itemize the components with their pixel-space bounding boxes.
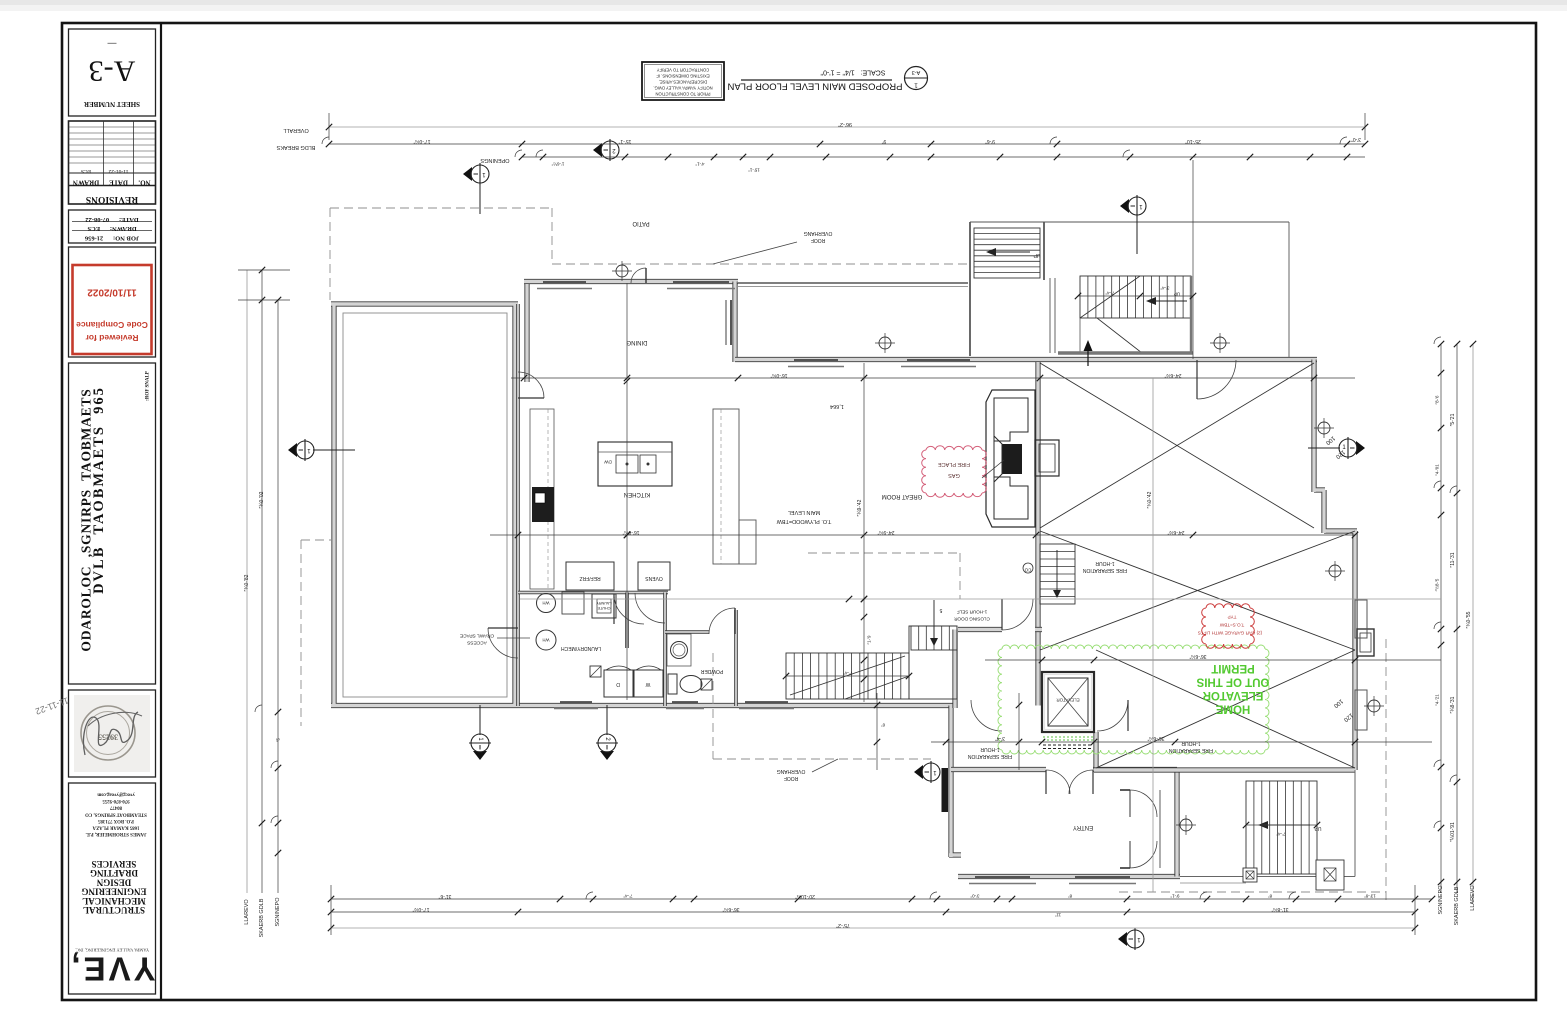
washer dryer bbox=[604, 666, 663, 697]
dim inner row 660 bbox=[985, 653, 1441, 663]
grid bubble dining bbox=[612, 261, 632, 281]
svg-text:ECS: ECS bbox=[81, 168, 91, 174]
svg-text:A-3: A-3 bbox=[912, 69, 921, 75]
svg-text::ROF SNALP: :ROF SNALP bbox=[146, 371, 151, 401]
kitchen island bbox=[598, 442, 672, 486]
svg-text:PROPOSED MAIN LEVEL FLOOR PLAN: PROPOSED MAIN LEVEL FLOOR PLAN bbox=[727, 81, 902, 92]
svg-text:″¼9-'42: ″¼9-'42 bbox=[857, 499, 863, 516]
svg-text:11/10/2022: 11/10/2022 bbox=[87, 287, 137, 298]
svg-text:8": 8" bbox=[1068, 894, 1073, 899]
svg-text:DINING: DINING bbox=[626, 339, 647, 345]
dim inner row 535 bbox=[490, 529, 1358, 538]
svg-text:1-HOUR SELF: 1-HOUR SELF bbox=[957, 610, 988, 615]
room labels bbox=[460, 220, 1213, 830]
upper floor outline dashed bbox=[808, 553, 960, 599]
window south 2 bbox=[666, 702, 704, 709]
svg-text:DW: DW bbox=[604, 460, 612, 465]
svg-text:6": 6" bbox=[881, 723, 886, 728]
svg-text:W: W bbox=[645, 681, 650, 687]
svg-text:DISCREPANCIES ARISE,: DISCREPANCIES ARISE, bbox=[659, 80, 708, 85]
dim inner row 378 bbox=[511, 372, 1355, 381]
wall powder west bbox=[663, 593, 667, 707]
svg-text:DRAWN: DRAWN bbox=[73, 179, 99, 187]
svg-text:7'-4": 7'-4" bbox=[1105, 291, 1114, 296]
wall dining west upper bbox=[524, 284, 529, 382]
svg-text:SGNINEPO: SGNINEPO bbox=[275, 897, 281, 927]
grid bubble garage e1 bbox=[1314, 418, 1334, 438]
svg-text:1-HOUR: 1-HOUR bbox=[1095, 560, 1115, 566]
svg-text:9'-1": 9'-1" bbox=[1170, 894, 1179, 899]
svg-text:SKAERB GDLB: SKAERB GDLB bbox=[259, 898, 265, 937]
stair top side walls bbox=[970, 222, 1055, 356]
svg-text:36'-6¼": 36'-6¼" bbox=[1147, 735, 1164, 741]
svg-text:17'-0¼": 17'-0¼" bbox=[413, 138, 430, 144]
elevator permit green text bbox=[1196, 662, 1269, 715]
svg-text:8": 8" bbox=[1268, 894, 1273, 899]
garage cross brace upper bbox=[1040, 363, 1314, 528]
closet walls bbox=[1120, 790, 1160, 868]
svg-text:T.O.S=TBW: T.O.S=TBW bbox=[1219, 623, 1244, 628]
wall laundry/powder divider bbox=[625, 593, 629, 649]
svg-text:LAUNRY: LAUNRY bbox=[596, 601, 612, 605]
wall garage west / great room east bbox=[1035, 362, 1040, 706]
stair fire separation bbox=[1040, 544, 1075, 604]
wall entry east bbox=[1174, 770, 1179, 877]
powder sink bbox=[667, 634, 691, 666]
wall left large room bbox=[331, 304, 518, 706]
svg-text:OVERHANG: OVERHANG bbox=[777, 768, 806, 774]
section marker top left bbox=[463, 163, 489, 214]
dim inner row 599 bbox=[520, 596, 1441, 602]
revisions table bbox=[69, 121, 156, 204]
svg-text:5: 5 bbox=[939, 607, 942, 613]
elevator door green dotted bbox=[1043, 737, 1093, 740]
dim stair s2 bbox=[1075, 286, 1196, 300]
svg-text:JAMES STROHMEIER, P.E.: JAMES STROHMEIER, P.E. bbox=[86, 831, 147, 836]
svg-text:OPENINGS: OPENINGS bbox=[480, 157, 509, 163]
svg-text:T.O. PLYWOOD=TBW: T.O. PLYWOOD=TBW bbox=[776, 518, 832, 524]
svg-text:(2) CAR GARAGE WITH LIFTS: (2) CAR GARAGE WITH LIFTS bbox=[1198, 631, 1262, 636]
svg-text:BLDG BREAKS: BLDG BREAKS bbox=[276, 144, 315, 150]
svg-text:″¼01-'91: ″¼01-'91 bbox=[1450, 822, 1456, 842]
svg-text:KITCHEN: KITCHEN bbox=[624, 491, 650, 497]
svg-text:24'-6½": 24'-6½" bbox=[1164, 372, 1181, 379]
grid bubble entry bbox=[1176, 815, 1196, 835]
door elevator hall right bbox=[1097, 700, 1128, 731]
section marker right garage bbox=[1308, 437, 1365, 459]
svg-text:STRUCTURAL: STRUCTURAL bbox=[83, 905, 145, 915]
cabinet below wh bbox=[562, 592, 584, 614]
svg-text:MECHANICAL: MECHANICAL bbox=[82, 896, 146, 906]
wall entry south bbox=[958, 874, 1180, 879]
svg-text:FIRE SEPARATION: FIRE SEPARATION bbox=[1082, 567, 1127, 573]
svg-text:″1-'9: ″1-'9 bbox=[867, 635, 872, 644]
stair exterior top bbox=[974, 228, 1040, 278]
wall hall east bbox=[1093, 732, 1098, 770]
svg-text:CRAWL SPACE: CRAWL SPACE bbox=[460, 633, 494, 639]
wall powder north bbox=[665, 630, 709, 634]
door garage north bbox=[1197, 360, 1236, 399]
ovens bbox=[638, 562, 670, 590]
newel post large bbox=[1316, 860, 1344, 890]
svg-text:REF/FRZ: REF/FRZ bbox=[579, 575, 600, 581]
svg-text:OVENS: OVENS bbox=[645, 575, 663, 581]
window dining 1 bbox=[537, 282, 592, 289]
wall hall west bbox=[952, 630, 957, 709]
dim stair s4 bbox=[783, 671, 912, 680]
window entry south 2 bbox=[1069, 877, 1136, 884]
svg-text:36'-6¼": 36'-6¼" bbox=[722, 906, 739, 912]
green permit cloud bbox=[998, 645, 1269, 754]
svg-text:yvecg@yveag.com: yvecg@yveag.com bbox=[97, 792, 134, 797]
window south 1 bbox=[554, 702, 598, 709]
svg-text:75'-2": 75'-2" bbox=[836, 922, 850, 928]
stair upper small flight bbox=[911, 626, 957, 650]
job info panel bbox=[69, 210, 156, 243]
section marker entry bbox=[914, 761, 940, 783]
svg-text:15'-1": 15'-1" bbox=[748, 168, 760, 173]
address panel bbox=[69, 363, 156, 684]
svg-text:″¾0-'82: ″¾0-'82 bbox=[244, 574, 250, 591]
wall great room + garage north bbox=[735, 357, 1317, 362]
svg-text:SCALE: 1/4" = 1'-0": SCALE: 1/4" = 1'-0" bbox=[820, 69, 885, 76]
stamp panel with red review box bbox=[69, 247, 156, 357]
svg-text:OVERHANG: OVERHANG bbox=[804, 230, 833, 236]
laundry chute bbox=[592, 594, 616, 618]
stair small flight arrow bbox=[930, 600, 942, 646]
wall kitchen west interior bbox=[516, 304, 520, 706]
svg-text:TYP: TYP bbox=[1228, 615, 1237, 620]
svg-text:MAIN LEVEL: MAIN LEVEL bbox=[788, 509, 820, 515]
drawing title bbox=[727, 67, 927, 92]
dim right verticals bbox=[1434, 341, 1477, 926]
garage cross brace lower bbox=[1096, 650, 1355, 768]
svg-text:1685 KAMAR PLAZA: 1685 KAMAR PLAZA bbox=[92, 825, 139, 830]
garage cloud text bbox=[1198, 615, 1262, 636]
window great room 1 bbox=[788, 360, 844, 367]
title block divider bbox=[160, 23, 162, 1000]
grid bubble porch e bbox=[1364, 696, 1384, 716]
dim vertical x627 bbox=[624, 283, 630, 700]
svg-text:ELEVATOR: ELEVATOR bbox=[1056, 698, 1080, 703]
svg-text:9'-6": 9'-6" bbox=[985, 138, 995, 144]
svg-text:HOME: HOME bbox=[1215, 703, 1250, 715]
svg-text:9": 9" bbox=[882, 138, 887, 144]
door left room lower bbox=[488, 628, 518, 658]
svg-text:11-01-22: 11-01-22 bbox=[108, 168, 128, 174]
dim left verticals bbox=[238, 267, 290, 938]
svg-text:1'-6½": 1'-6½" bbox=[551, 162, 564, 168]
svg-text:SERVICES: SERVICES bbox=[92, 859, 137, 869]
svg-text:″5: ″5 bbox=[276, 737, 281, 742]
svg-text:11": 11" bbox=[1054, 913, 1061, 918]
svg-text:JOB NO: 21-656: JOB NO: 21-656 bbox=[84, 235, 139, 242]
svg-text:ELEVATOR: ELEVATOR bbox=[1202, 689, 1263, 701]
shear wall squares bbox=[590, 666, 712, 690]
svg-text:″4-'21: ″4-'21 bbox=[1435, 694, 1440, 706]
svg-text:D: D bbox=[616, 681, 620, 687]
fireplace cloud text bbox=[938, 460, 1004, 478]
svg-text:LLAREVO: LLAREVO bbox=[1470, 885, 1476, 911]
wall powder east bbox=[734, 610, 738, 706]
svg-text:15'-1": 15'-1" bbox=[618, 138, 631, 144]
svg-text:UP: UP bbox=[1314, 825, 1322, 831]
grid bubble garage e2 bbox=[1325, 561, 1345, 581]
section marker bottom mid bbox=[596, 705, 618, 760]
dim top overall bbox=[283, 113, 1368, 140]
wall entry west bbox=[949, 706, 961, 858]
door closet lower bbox=[1130, 841, 1157, 868]
stair main interior bbox=[786, 653, 909, 699]
svg-text:970-870-9255: 970-870-9255 bbox=[102, 798, 130, 803]
porch slab edge lines bbox=[1180, 770, 1355, 883]
kitchen west counter bbox=[530, 409, 554, 589]
svg-text:SGNINEPO: SGNINEPO bbox=[1438, 885, 1444, 915]
window entry south 1 bbox=[969, 877, 1036, 884]
deck edge right bbox=[970, 222, 1289, 357]
wall hall north bbox=[958, 627, 1042, 632]
svg-text:25'-10": 25'-10" bbox=[1185, 138, 1201, 144]
svg-text:GREAT ROOM: GREAT ROOM bbox=[882, 493, 922, 499]
fireplace structure bbox=[986, 390, 1059, 527]
svg-text:CONTRACTOR TO VERIFY: CONTRACTOR TO VERIFY bbox=[657, 68, 710, 73]
stair top arrow bbox=[986, 248, 1040, 258]
section marker bottom left bbox=[469, 705, 491, 760]
dim inner row 742 bbox=[931, 735, 1432, 745]
svg-text:3'-0": 3'-0" bbox=[1351, 136, 1361, 142]
svg-text:″¼8-'31: ″¼8-'31 bbox=[1450, 696, 1456, 713]
revision cloud garage lifts bbox=[1202, 604, 1255, 649]
door hall top bbox=[635, 593, 665, 623]
svg-text:PERMIT: PERMIT bbox=[1211, 662, 1254, 674]
svg-text:17'-0½": 17'-0½" bbox=[412, 906, 429, 913]
svg-text:20'-10¼": 20'-10¼" bbox=[795, 893, 815, 899]
svg-text:24'-6½": 24'-6½" bbox=[1167, 529, 1184, 536]
stair entry porch bbox=[1246, 781, 1317, 874]
svg-text:36'-6¼": 36'-6¼" bbox=[1189, 653, 1206, 659]
left room inner slab line bbox=[343, 313, 507, 697]
svg-text:96'-2": 96'-2" bbox=[838, 121, 852, 127]
svg-text:UP: UP bbox=[1033, 252, 1041, 258]
revision cloud fireplace bbox=[922, 446, 987, 498]
svg-text:PRIOR TO CONSTRUCTION: PRIOR TO CONSTRUCTION bbox=[656, 92, 711, 97]
dim stair s5 bbox=[1243, 822, 1320, 837]
firm info + services + YVE logo panel bbox=[68, 783, 155, 994]
wall dining north bbox=[524, 279, 738, 284]
svg-text:1,664: 1,664 bbox=[830, 403, 844, 409]
door elevator hall left bbox=[971, 700, 1002, 731]
svg-text:DATE: 07-08-22: DATE: 07-08-22 bbox=[85, 216, 138, 223]
svg-text:3'-4": 3'-4" bbox=[995, 735, 1005, 741]
svg-text:POWDER: POWDER bbox=[700, 668, 723, 674]
stair landing bbox=[909, 626, 957, 699]
svg-text:SHEET NUMBER: SHEET NUMBER bbox=[83, 100, 140, 108]
svg-text:3'-0": 3'-0" bbox=[970, 894, 979, 899]
svg-text:CHUTE: CHUTE bbox=[597, 606, 611, 610]
svg-text:80477: 80477 bbox=[109, 805, 122, 810]
wall south main bbox=[518, 703, 953, 708]
svg-text:16'-0¾": 16'-0¾" bbox=[770, 372, 787, 378]
svg-text:DRAWN: ECS: DRAWN: ECS bbox=[87, 225, 137, 232]
window dining 2 bbox=[667, 282, 735, 289]
kitchen tall cabinets east bbox=[713, 409, 756, 564]
svg-text:WH: WH bbox=[543, 638, 550, 643]
window tags right wall bbox=[1324, 434, 1354, 722]
grid bubble garage nw bbox=[1210, 333, 1230, 353]
svg-text:1-HOUR: 1-HOUR bbox=[1181, 740, 1201, 746]
window south 3 bbox=[739, 702, 794, 709]
svg-text:″¾0-'42: ″¾0-'42 bbox=[1147, 491, 1153, 508]
door dining patio bbox=[631, 268, 646, 283]
svg-text:″4-'01: ″4-'01 bbox=[1435, 464, 1440, 476]
elevator shaft bbox=[1042, 672, 1094, 749]
svg-text:PATIO: PATIO bbox=[632, 220, 649, 226]
svg-text:ENGINEERING: ENGINEERING bbox=[81, 887, 146, 897]
garage cross brace middle bbox=[1040, 531, 1355, 650]
svg-text:GAS: GAS bbox=[948, 472, 960, 478]
svg-text:31'-8¼": 31'-8¼" bbox=[1271, 906, 1288, 912]
svg-text:″¾0-'55: ″¾0-'55 bbox=[1466, 611, 1472, 628]
svg-text:1: 1 bbox=[914, 82, 918, 89]
svg-text:OVERALL: OVERALL bbox=[283, 127, 308, 133]
dim top bldg breaks bbox=[276, 136, 1368, 150]
svg-text:ENTRY: ENTRY bbox=[1073, 824, 1093, 830]
stair fire separation arrow bbox=[1053, 550, 1061, 598]
window dining east vertical bbox=[726, 300, 731, 345]
svg-text:ODAROLOC ,SGNIRPS TAOBMAETS: ODAROLOC ,SGNIRPS TAOBMAETS bbox=[79, 388, 94, 651]
door hall 1hr self closing bbox=[1002, 599, 1033, 630]
water heaters bbox=[536, 594, 556, 651]
svg-text:DATE: DATE bbox=[109, 179, 128, 187]
svg-text:YVE,: YVE, bbox=[68, 951, 155, 988]
svg-text:16'-0¼": 16'-0¼" bbox=[622, 529, 639, 535]
grid bubble great room bbox=[875, 333, 895, 353]
powder toilet bbox=[668, 674, 702, 694]
svg-text:″½8-'5: ″½8-'5 bbox=[1434, 578, 1440, 591]
newel post small bbox=[1243, 868, 1257, 882]
svg-text:Reviewed for: Reviewed for bbox=[85, 333, 139, 343]
wall garage east jogs bbox=[1314, 360, 1357, 771]
svg-text:7'-4": 7'-4" bbox=[1276, 832, 1285, 837]
section marker top mid bbox=[593, 139, 619, 161]
dim vertical x1193 garage bbox=[1147, 160, 1193, 892]
svg-text:″¼0-'02: ″¼0-'02 bbox=[259, 491, 265, 508]
dim bottom overall bbox=[328, 885, 1418, 935]
svg-text:P.O. BOX 771385: P.O. BOX 771385 bbox=[98, 818, 134, 823]
dim vertical x864 bbox=[857, 363, 872, 702]
porch post nested bbox=[1357, 629, 1374, 656]
wall garage south bbox=[1094, 767, 1355, 772]
svg-text:DRAFTING: DRAFTING bbox=[90, 868, 138, 878]
svg-text:WH: WH bbox=[543, 601, 550, 606]
dim bottom openings bbox=[328, 893, 1435, 902]
patio south edge line bbox=[738, 283, 968, 287]
sheet number panel bbox=[69, 29, 156, 116]
svg-text:″11-'31: ″11-'31 bbox=[1450, 552, 1456, 567]
contractor note box bbox=[642, 62, 724, 100]
svg-text:7'-4": 7'-4" bbox=[623, 894, 632, 899]
entry west wall post bbox=[942, 768, 949, 812]
engineer seal with signature bbox=[69, 690, 156, 777]
svg-text:″5-'21: ″5-'21 bbox=[1450, 413, 1456, 426]
stair main diagonal break bbox=[790, 656, 909, 699]
svg-text:EXISTING DIMENSIONS. IF: EXISTING DIMENSIONS. IF bbox=[656, 74, 710, 79]
patio roof overhang dashed bbox=[330, 208, 968, 300]
svg-text:Code Compliance: Code Compliance bbox=[76, 320, 148, 330]
svg-text:FIRE SEPARATION: FIRE SEPARATION bbox=[967, 753, 1012, 759]
svg-text:3'-4": 3'-4" bbox=[1160, 286, 1169, 291]
door entry double bbox=[1046, 770, 1093, 794]
stair S2 lower diagonal and up arrow bbox=[1080, 292, 1187, 354]
svg-text:1-HOUR: 1-HOUR bbox=[980, 746, 1000, 752]
dim entry small bbox=[874, 693, 1022, 770]
door laundry bbox=[614, 594, 644, 624]
svg-text:NO.: NO. bbox=[138, 179, 151, 187]
ref frz bbox=[566, 562, 614, 590]
scanner gray strip top bbox=[0, 0, 1567, 5]
door closet upper bbox=[1130, 790, 1157, 817]
svg-text:FIRE PLACE: FIRE PLACE bbox=[938, 461, 970, 467]
svg-text:24'-9¼": 24'-9¼" bbox=[877, 529, 894, 535]
window garage east bumps bbox=[1355, 600, 1367, 730]
svg-text:LLAREVO: LLAREVO bbox=[244, 899, 250, 925]
dim bottom bldg breaks bbox=[328, 906, 1418, 918]
stair porch up arrow bbox=[1258, 821, 1321, 831]
svg-text:DESIGN: DESIGN bbox=[96, 877, 131, 887]
svg-text:—: — bbox=[108, 39, 117, 49]
svg-text:31'-6": 31'-6" bbox=[438, 893, 451, 899]
svg-text:ROOF: ROOF bbox=[784, 775, 798, 781]
svg-text:″8-'6: ″8-'6 bbox=[1435, 395, 1440, 404]
wall dining east bbox=[732, 282, 737, 363]
door left room upper bbox=[518, 372, 544, 398]
section marker bottom right bbox=[1118, 928, 1144, 950]
deck door up arrow bbox=[1084, 340, 1093, 366]
door powder bbox=[709, 608, 735, 634]
svg-text:A-3: A-3 bbox=[89, 55, 136, 88]
wall entry north with door opening bbox=[951, 767, 1177, 772]
svg-text:4'-1": 4'-1" bbox=[695, 162, 704, 167]
svg-text:REVISIONS: REVISIONS bbox=[86, 194, 138, 204]
svg-text:13'-8": 13'-8" bbox=[1364, 894, 1376, 899]
roof overhang dashed left bbox=[301, 540, 331, 726]
svg-text:FIRE SEPARATION: FIRE SEPARATION bbox=[1168, 747, 1213, 753]
section marker right upper bbox=[1120, 195, 1146, 254]
svg-text:CLOSING DOOR: CLOSING DOOR bbox=[953, 617, 989, 622]
svg-text:STEAMBOAT SPRINGS, CO: STEAMBOAT SPRINGS, CO bbox=[85, 811, 147, 816]
section marker left mid bbox=[288, 439, 355, 461]
svg-text:ACCESS: ACCESS bbox=[467, 640, 487, 646]
wall laundry north bbox=[518, 591, 668, 595]
svg-text:LAUNDRY/MECH: LAUNDRY/MECH bbox=[561, 645, 601, 651]
stair upper right deck bbox=[1080, 276, 1191, 318]
svg-text:NOTIFY YAMPA VALLEY DWG.: NOTIFY YAMPA VALLEY DWG. bbox=[653, 86, 712, 91]
window great room 2 bbox=[901, 360, 976, 367]
roof overhang dashed south bbox=[713, 653, 931, 759]
svg-text:ROOF: ROOF bbox=[811, 237, 825, 243]
dim top openings bbox=[480, 154, 1365, 173]
svg-text:SKAERB GDLB: SKAERB GDLB bbox=[1454, 886, 1460, 925]
svg-text:OUT OF THIS: OUT OF THIS bbox=[1196, 676, 1269, 688]
svg-text:7'-4": 7'-4" bbox=[843, 671, 852, 676]
dimension tick hooks bbox=[255, 137, 1457, 899]
right side dashed property line bbox=[1119, 639, 1386, 903]
